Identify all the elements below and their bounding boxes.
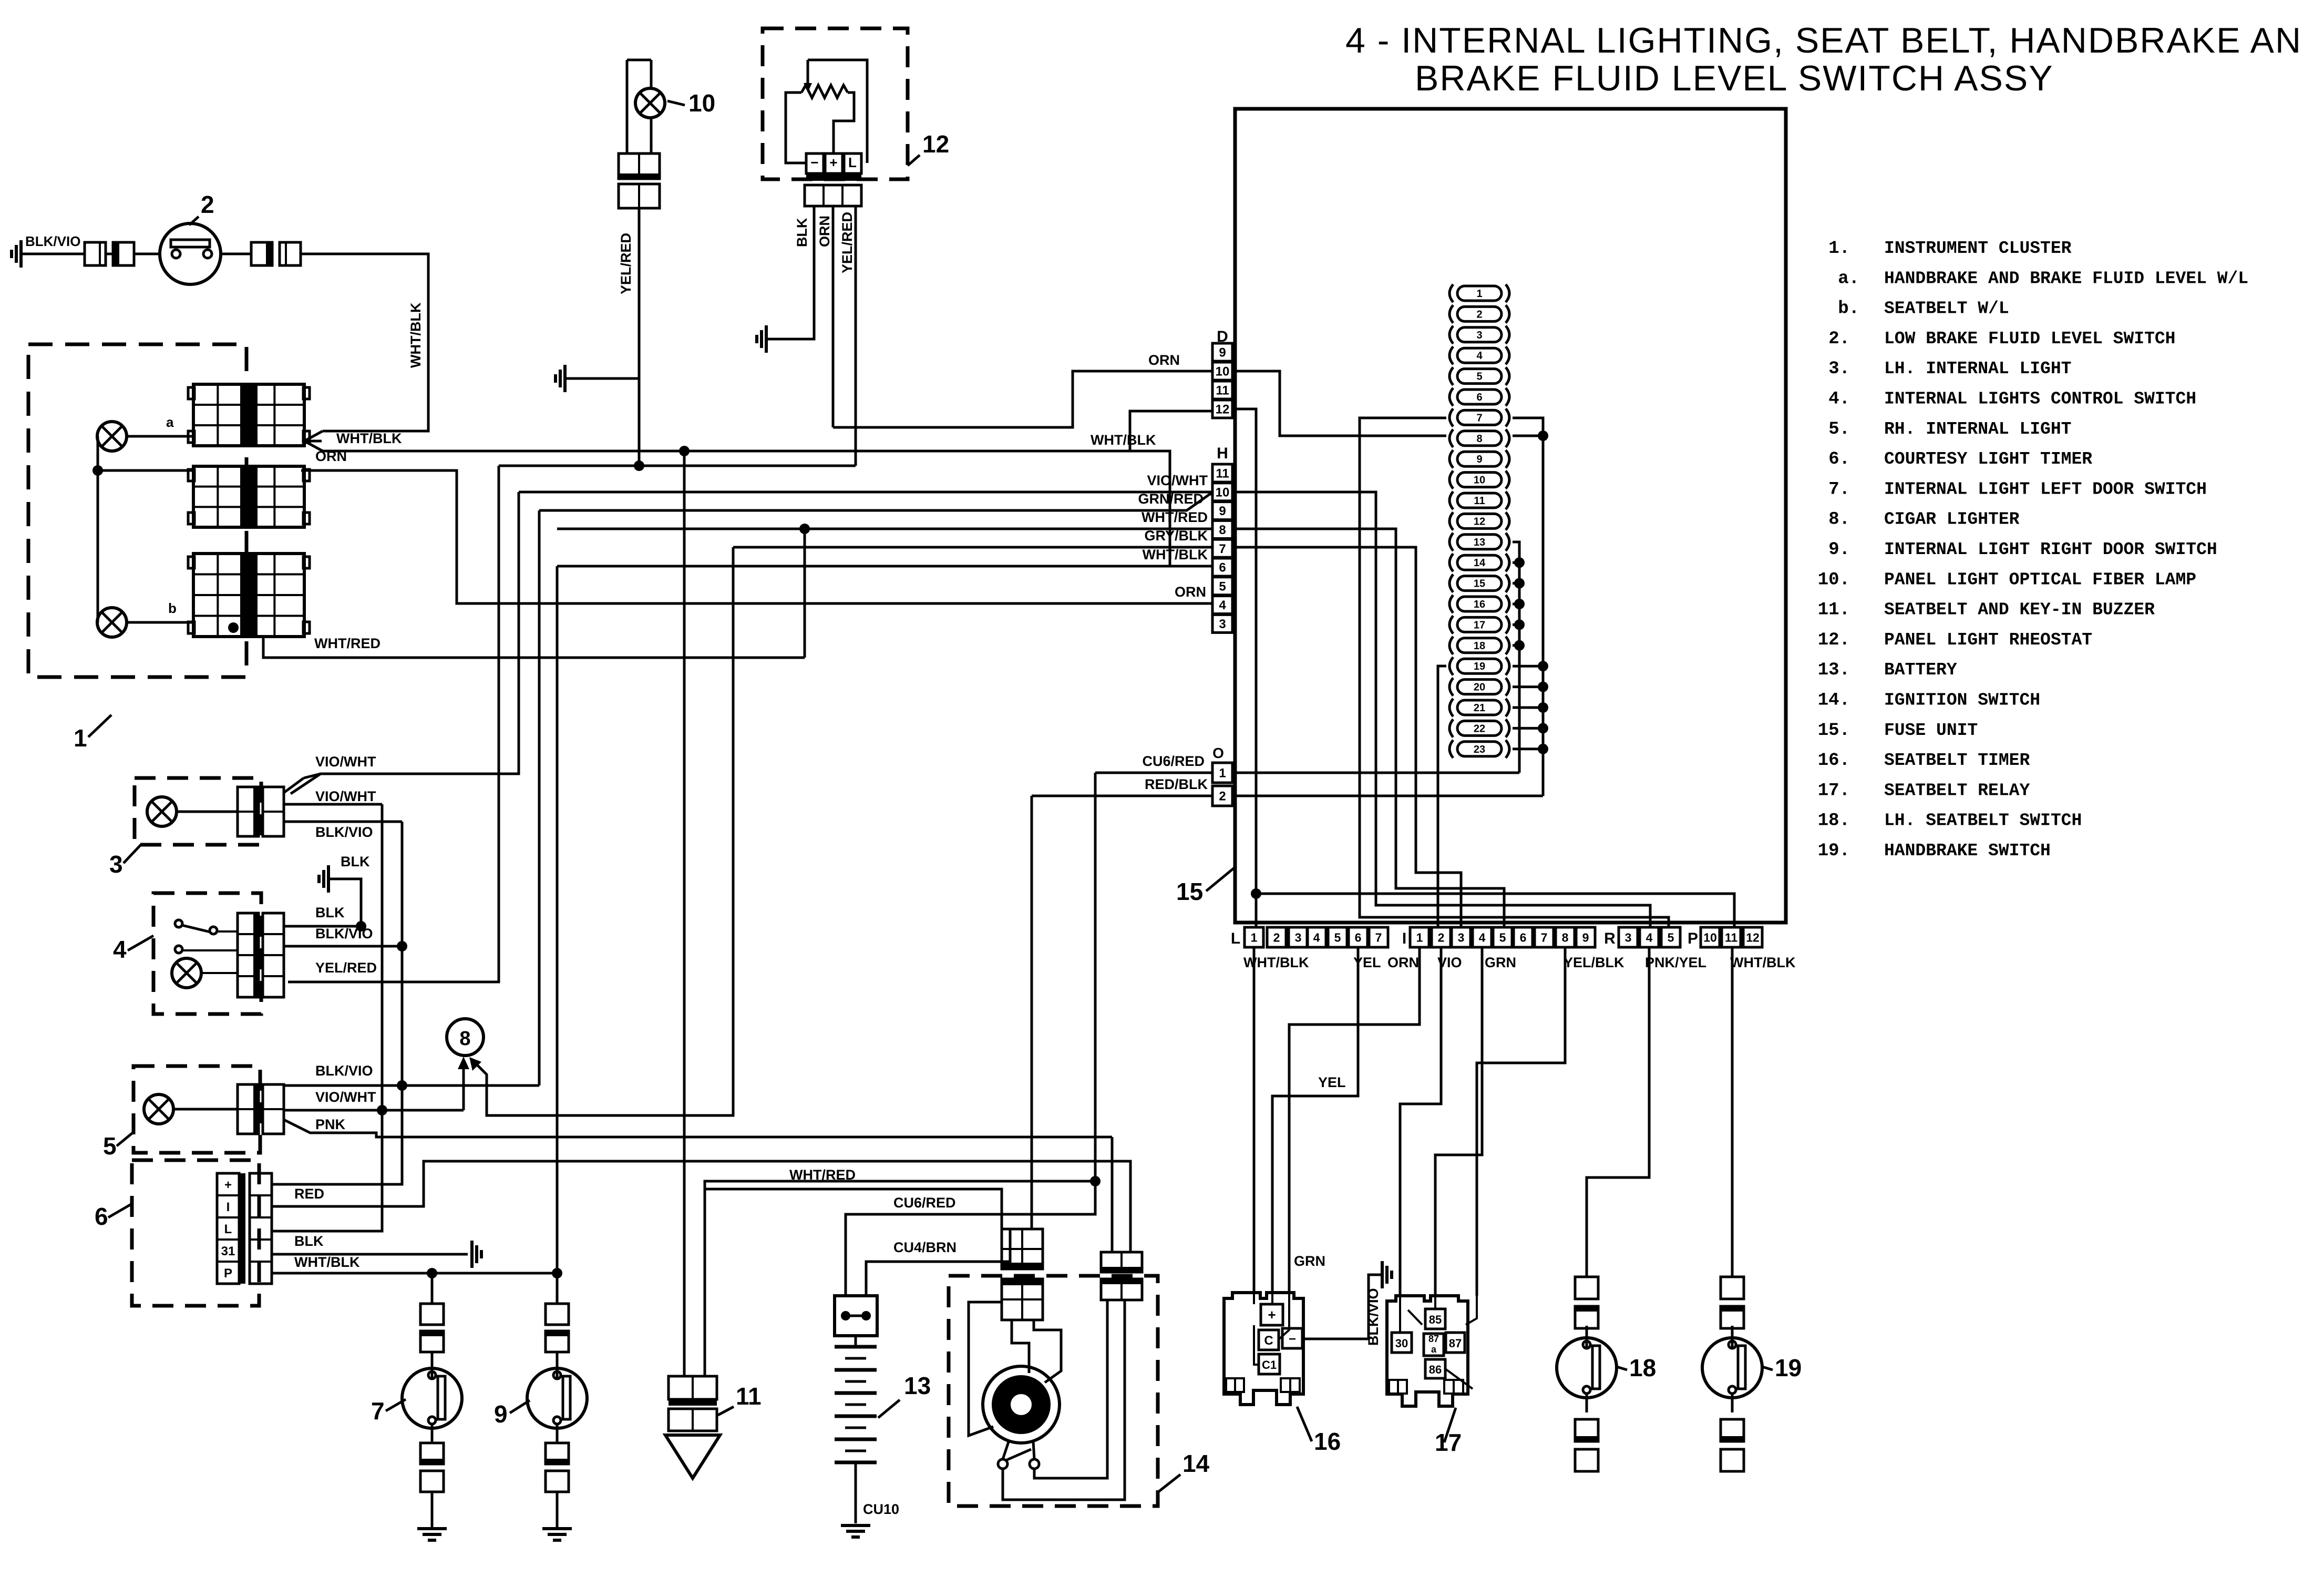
svg-text:SEATBELT TIMER: SEATBELT TIMER	[1884, 751, 2030, 770]
svg-text:18: 18	[1474, 640, 1485, 652]
fuse 23	[1449, 740, 1453, 758]
svg-text:I: I	[227, 1200, 230, 1214]
fuse 14	[1449, 554, 1453, 571]
wire riser to D12 left	[1130, 411, 1212, 451]
light5 connector	[238, 1084, 259, 1134]
svg-text:ORN: ORN	[817, 216, 832, 247]
svg-text:14: 14	[1474, 557, 1486, 569]
wire CU4/BRN from battery to ignition	[866, 1229, 1010, 1296]
terminal strip pin 4 at x3138	[1640, 927, 1659, 947]
svg-text:9: 9	[1219, 346, 1226, 360]
svg-text:10: 10	[1703, 930, 1717, 944]
svg-text:8: 8	[459, 1028, 470, 1050]
wire GRN/RED into H10 diagonal	[539, 494, 1212, 510]
ignition right connector upper	[1101, 1252, 1142, 1272]
svg-text:87: 87	[1428, 1334, 1439, 1344]
svg-text:8: 8	[1219, 523, 1226, 537]
wire fuse8 stub right	[1513, 435, 1543, 437]
ground G10	[1381, 1261, 1384, 1288]
svg-text:BATTERY: BATTERY	[1884, 660, 1957, 680]
wire BLK/VIO from light5	[284, 1084, 539, 1087]
svg-text:10: 10	[688, 89, 715, 117]
svg-text:ORN: ORN	[1387, 955, 1419, 970]
svg-text:1: 1	[1476, 288, 1482, 300]
svg-text:10: 10	[1474, 475, 1485, 486]
svg-text:12: 12	[1746, 930, 1760, 944]
fuse 15	[1449, 575, 1453, 592]
lamp in switch 4	[172, 958, 201, 988]
svg-text:15: 15	[1176, 878, 1203, 905]
wire D12 to P11 and L1	[1233, 409, 1256, 894]
terminal strip pin 4 at x2820	[1473, 927, 1492, 947]
wire BLK/VIO from light3	[284, 821, 402, 823]
seatbelt switch 18 connectors	[1575, 1277, 1598, 1299]
svg-text:−: −	[1289, 1332, 1296, 1346]
svg-text:I: I	[1402, 930, 1406, 947]
switch4 contacts	[175, 920, 182, 927]
svg-text:P: P	[224, 1266, 232, 1281]
wire YEL L6 to seatbelt timer	[1272, 947, 1358, 1293]
svg-text:5: 5	[1476, 371, 1482, 383]
svg-text:+: +	[224, 1178, 232, 1192]
relay17 terminal 86	[1425, 1359, 1445, 1378]
svg-text:CU6/RED: CU6/RED	[893, 1195, 956, 1211]
fuse 22	[1449, 719, 1453, 737]
svg-text:18: 18	[1629, 1354, 1656, 1381]
svg-text:WHT/BLK: WHT/BLK	[1143, 547, 1208, 562]
svg-text:3: 3	[1476, 330, 1482, 341]
svg-text:5: 5	[1499, 930, 1506, 944]
ground G7	[431, 1492, 434, 1529]
wire PNK from light5	[284, 1120, 1112, 1137]
seatbelt timer 16	[1224, 1293, 1303, 1405]
svg-text:BLK: BLK	[315, 905, 345, 920]
svg-text:11: 11	[1725, 930, 1738, 944]
svg-text:19: 19	[1775, 1354, 1802, 1381]
svg-text:VIO/WHT: VIO/WHT	[315, 788, 376, 804]
svg-text:14.: 14.	[1818, 691, 1850, 711]
wire fuse 18 stub	[1513, 644, 1519, 647]
svg-text:+: +	[829, 155, 837, 170]
svg-text:86: 86	[1429, 1363, 1442, 1376]
lamp 3	[147, 797, 177, 826]
svg-text:CU4/BRN: CU4/BRN	[893, 1240, 957, 1255]
svg-text:ORN: ORN	[315, 448, 347, 464]
svg-text:INTERNAL LIGHT RIGHT DOOR SWIT: INTERNAL LIGHT RIGHT DOOR SWITCH	[1884, 540, 2217, 559]
terminal strip pin 5 at x2859	[1493, 927, 1512, 947]
wire WHT/BLK long to H6	[322, 451, 1170, 566]
svg-text:5: 5	[103, 1132, 117, 1160]
fuse 19	[1449, 657, 1453, 675]
svg-text:17.: 17.	[1818, 781, 1850, 801]
ignition bottom loop wires	[1003, 1300, 1125, 1500]
svg-text:22: 22	[1474, 723, 1485, 734]
svg-text:2: 2	[1219, 790, 1226, 804]
svg-text:5.: 5.	[1828, 419, 1850, 439]
svg-text:BRAKE FLUID LEVEL SWITCH ASSY: BRAKE FLUID LEVEL SWITCH ASSY	[1415, 58, 2054, 98]
ground G2	[765, 325, 768, 353]
ground G11	[563, 365, 567, 392]
relay17 inner leads	[1399, 1296, 1401, 1333]
svg-text:RH. INTERNAL LIGHT: RH. INTERNAL LIGHT	[1884, 419, 2071, 439]
fuse 5	[1449, 367, 1453, 385]
svg-text:COURTESY LIGHT TIMER: COURTESY LIGHT TIMER	[1884, 449, 2092, 469]
wire fuse13 to O1 bus	[1513, 542, 1519, 773]
ground G8	[556, 1492, 559, 1529]
terminal strip pin 5 at x2545	[1328, 927, 1347, 947]
terminal strip pin 6 at x2584	[1349, 927, 1367, 947]
terminal strip pin 4 at x2505	[1307, 927, 1326, 947]
arrow WHT/BLK out of cluster	[304, 431, 323, 451]
svg-text:13.: 13.	[1818, 660, 1850, 680]
svg-text:2: 2	[201, 191, 214, 218]
switch4 connector	[238, 913, 259, 997]
svg-text:7: 7	[1375, 930, 1382, 944]
svg-text:HANDBRAKE AND BRAKE FLUID LEVE: HANDBRAKE AND BRAKE FLUID LEVEL W/L	[1884, 269, 2248, 288]
wire fuse 23 stub right	[1513, 747, 1543, 750]
wire fuse 20 stub right	[1513, 685, 1543, 688]
wire ORN into D10	[833, 371, 1212, 427]
svg-text:4: 4	[1646, 930, 1653, 944]
cluster connector row2 left	[193, 466, 248, 527]
svg-text:C1: C1	[1262, 1358, 1277, 1371]
wire I4 to relay	[1435, 947, 1482, 1296]
terminal strip pin 3 at x3098	[1619, 927, 1638, 947]
fuse 18	[1449, 637, 1453, 654]
ground G9	[841, 1524, 870, 1527]
svg-text:11: 11	[1474, 495, 1485, 507]
timer16 inner leads	[1253, 1293, 1255, 1304]
wire CU6/RED to battery	[846, 773, 1095, 1296]
wire BLK from switch4	[284, 925, 361, 928]
svg-text:YEL/BLK: YEL/BLK	[1564, 955, 1624, 970]
svg-text:P: P	[1688, 930, 1698, 947]
wire timer16 minus to ground BLK/VIO	[1302, 1275, 1382, 1339]
terminal strip pin 3 at x2470	[1289, 927, 1308, 947]
seatbelt switch 18 bottom connectors	[1586, 1394, 1587, 1419]
cluster connector row1 right	[250, 384, 304, 446]
svg-text:18.: 18.	[1818, 811, 1850, 831]
wire I8 to relay	[1477, 947, 1565, 1296]
fuse 17	[1449, 616, 1453, 633]
door switch 7 connectors top	[420, 1304, 444, 1325]
wire to buzzer left	[683, 451, 686, 1376]
door switch 7 connectors bottom	[420, 1443, 444, 1464]
wire GRY/BLK down to cigar lighter	[476, 547, 733, 1115]
svg-text:5: 5	[1668, 930, 1674, 944]
svg-text:SEATBELT RELAY: SEATBELT RELAY	[1884, 781, 2030, 800]
fuse 21	[1449, 699, 1453, 716]
svg-text:RED: RED	[294, 1186, 324, 1202]
wire H7 to I3	[1233, 547, 1461, 927]
svg-text:20: 20	[1474, 682, 1485, 693]
connector O pin 1	[1212, 763, 1232, 783]
wire YEL/RED from rheostat	[855, 206, 857, 466]
svg-text:PANEL LIGHT OPTICAL FIBER LAMP: PANEL LIGHT OPTICAL FIBER LAMP	[1884, 570, 2196, 589]
terminal strip pin 3 at x2780	[1452, 927, 1471, 947]
svg-text:9: 9	[1219, 504, 1226, 518]
internal lights control switch 4	[153, 893, 261, 1014]
svg-text:4: 4	[113, 936, 127, 963]
rheostat connector below	[805, 185, 861, 206]
svg-text:BLK/VIO: BLK/VIO	[315, 824, 373, 840]
terminal strip pin 9 at x3017	[1576, 927, 1595, 947]
svg-text:85: 85	[1429, 1313, 1442, 1326]
relay17 terminal 30	[1392, 1333, 1412, 1353]
cluster connector row1 left	[193, 384, 248, 446]
svg-text:19: 19	[1474, 661, 1485, 672]
svg-text:a.: a.	[1838, 269, 1859, 289]
relay17 terminal 87a	[1424, 1334, 1444, 1356]
ground G1	[19, 240, 23, 268]
svg-text:87: 87	[1449, 1337, 1462, 1350]
svg-text:PNK: PNK	[315, 1117, 346, 1132]
svg-text:11: 11	[1216, 384, 1229, 398]
timer16 bottom cells	[1226, 1378, 1244, 1392]
svg-text:4: 4	[1479, 930, 1486, 944]
svg-text:PANEL LIGHT RHEOSTAT: PANEL LIGHT RHEOSTAT	[1884, 630, 2092, 650]
svg-text:YEL/RED: YEL/RED	[839, 212, 855, 273]
ground G5	[328, 879, 361, 926]
svg-text:GRN: GRN	[1294, 1253, 1325, 1269]
wire H8 to I5	[1233, 529, 1504, 927]
connector D pin 10	[1212, 362, 1232, 380]
svg-text:LH. INTERNAL LIGHT: LH. INTERNAL LIGHT	[1884, 359, 2071, 378]
svg-text:FUSE UNIT: FUSE UNIT	[1884, 721, 1978, 740]
svg-text:3: 3	[1219, 617, 1226, 631]
svg-text:b: b	[168, 600, 177, 616]
wire fuse 15 stub	[1513, 582, 1519, 585]
svg-text:CU6/RED: CU6/RED	[1142, 753, 1205, 769]
svg-text:IGNITION SWITCH: IGNITION SWITCH	[1884, 691, 2040, 710]
seatbelt switch 18 leads	[1586, 1470, 1588, 1472]
light3 connector	[238, 787, 259, 836]
wire I1 GRN to seatbelt timer	[1289, 947, 1420, 1293]
svg-text:1: 1	[74, 724, 87, 752]
connector H pin 4	[1212, 596, 1232, 614]
terminal strip pin 2 at x2742	[1432, 927, 1451, 947]
wire BLK from timer to ground	[272, 1253, 468, 1256]
svg-text:b.: b.	[1838, 299, 1859, 319]
svg-text:2.: 2.	[1828, 329, 1850, 349]
svg-text:BLK/VIO: BLK/VIO	[315, 1063, 373, 1079]
timer terminal column	[217, 1173, 239, 1284]
cigar lighter 8	[447, 1019, 484, 1056]
connector H pin 6	[1212, 558, 1232, 576]
wire D10 to fuse8	[1233, 371, 1446, 436]
svg-text:7: 7	[1476, 412, 1482, 424]
terminal strip pin 7 at x2623	[1369, 927, 1388, 947]
svg-text:INTERNAL LIGHT LEFT DOOR SWITC: INTERNAL LIGHT LEFT DOOR SWITCH	[1884, 479, 2207, 499]
svg-text:16: 16	[1314, 1428, 1341, 1455]
connector H pin 9	[1212, 502, 1232, 520]
wire fuse7 to O2 bus	[1513, 418, 1543, 796]
svg-text:14: 14	[1182, 1450, 1210, 1477]
seatbelt and key-in buzzer 11	[665, 1435, 720, 1478]
rheostat terminals - + L	[806, 153, 824, 173]
wire fuse19 to I2	[1438, 666, 1446, 927]
svg-text:7: 7	[371, 1397, 385, 1425]
svg-text:CIGAR LIGHTER: CIGAR LIGHTER	[1884, 510, 2020, 529]
svg-text:4: 4	[1313, 930, 1320, 944]
svg-text:C: C	[1264, 1334, 1273, 1348]
svg-text:1: 1	[1416, 930, 1423, 944]
wire switch 2 to instrument cluster WHT/BLK	[301, 254, 428, 431]
svg-text:YEL/RED: YEL/RED	[315, 960, 377, 976]
svg-text:HANDBRAKE SWITCH: HANDBRAKE SWITCH	[1884, 841, 2051, 861]
timer16 terminal C1	[1259, 1354, 1280, 1374]
svg-text:H: H	[1217, 445, 1228, 462]
terminal strip pin 11 at x3294	[1722, 927, 1741, 947]
svg-text:WHT/BLK: WHT/BLK	[336, 431, 402, 446]
svg-text:9.: 9.	[1828, 540, 1850, 560]
wire YEL/RED from lamp 10	[638, 208, 641, 466]
connector H pin 8	[1212, 520, 1232, 538]
svg-text:9: 9	[1476, 454, 1482, 465]
wire P11 WHT/BLK to handbrake switch 19	[1731, 947, 1734, 1277]
svg-text:4: 4	[1219, 598, 1226, 612]
terminal strip pin 5 at x3179	[1661, 927, 1680, 947]
svg-text:L: L	[224, 1222, 232, 1236]
lamp 5	[144, 1094, 173, 1124]
courtesy light timer 6	[132, 1160, 259, 1306]
wire VIO/WHT mid from light3	[284, 803, 382, 806]
wire WHT/BLK H6 down to door switches	[556, 566, 559, 1273]
svg-text:8: 8	[1476, 433, 1482, 445]
wire R4 PNK/YEL to seatbelt switch 18	[1587, 947, 1649, 1277]
svg-text:a: a	[166, 414, 174, 430]
svg-text:4: 4	[1476, 350, 1483, 362]
connector O pin 2	[1212, 786, 1232, 806]
svg-text:21: 21	[1474, 702, 1485, 714]
wire GRN/RED down to lamp5 BLK/VIO	[538, 510, 541, 1086]
ignition connector lower	[1002, 1279, 1043, 1320]
svg-text:BLK: BLK	[341, 854, 370, 869]
wire VIO/WHT vertical to light5 and timer L	[272, 804, 382, 1231]
svg-text:6: 6	[1520, 930, 1527, 944]
fuse unit box 15	[1235, 109, 1786, 923]
timer16 terminal minus	[1282, 1328, 1302, 1348]
fuse 6	[1449, 388, 1453, 406]
svg-text:5: 5	[1219, 579, 1226, 593]
svg-text:INTERNAL LIGHTS CONTROL SWITCH: INTERNAL LIGHTS CONTROL SWITCH	[1884, 390, 2196, 409]
svg-text:15: 15	[1474, 578, 1485, 590]
terminal strip pin 12 at x3335	[1743, 927, 1762, 947]
connector H pin 5	[1212, 577, 1232, 595]
seatbelt relay 17	[1387, 1296, 1468, 1406]
svg-text:LOW BRAKE FLUID LEVEL SWITCH: LOW BRAKE FLUID LEVEL SWITCH	[1884, 329, 2176, 349]
svg-text:SEATBELT W/L: SEATBELT W/L	[1884, 299, 2009, 319]
fuse 16	[1449, 595, 1453, 613]
wire CU6/RED into O1	[1095, 772, 1212, 774]
svg-text:R: R	[1604, 930, 1616, 947]
svg-text:SEATBELT AND KEY-IN BUZZER: SEATBELT AND KEY-IN BUZZER	[1884, 600, 2155, 620]
terminal strip pin 10 at x3254	[1701, 927, 1720, 947]
wire YEL/RED run	[499, 465, 856, 467]
wire BLK/VIO to switch 2	[21, 253, 85, 255]
svg-text:L: L	[848, 155, 857, 170]
svg-text:VIO/WHT: VIO/WHT	[315, 1089, 376, 1105]
connector H pin 3	[1212, 615, 1232, 632]
connector pair right of switch 2	[221, 253, 251, 255]
handbrake switch 19 connectors	[1721, 1277, 1744, 1299]
svg-text:PNK/YEL: PNK/YEL	[1645, 955, 1706, 970]
connector H pin 11	[1212, 464, 1232, 482]
wire fuse 14 stub	[1513, 561, 1519, 564]
wire L1 to seatbelt timer	[1253, 947, 1256, 1293]
wire RED from timer	[272, 1161, 1130, 1252]
cluster connector row2 right	[250, 466, 304, 527]
svg-text:WHT/BLK: WHT/BLK	[294, 1254, 360, 1270]
svg-text:6: 6	[1219, 561, 1226, 575]
fuse 4	[1449, 346, 1453, 364]
rheostat resistor	[801, 85, 848, 98]
ground G6	[470, 1241, 474, 1268]
svg-text:GRY/BLK: GRY/BLK	[1145, 528, 1208, 544]
svg-text:12: 12	[1216, 403, 1230, 417]
svg-text:3: 3	[109, 851, 123, 878]
svg-text:8.: 8.	[1828, 510, 1850, 530]
wire RED/BLK into O2	[1032, 795, 1212, 797]
svg-text:11: 11	[736, 1383, 762, 1410]
wire fuse 22 stub right	[1513, 727, 1543, 730]
connector D pin 11	[1212, 381, 1232, 399]
fuse 9	[1449, 450, 1453, 468]
wire fuse7 to R5	[1360, 418, 1669, 927]
connector D pin 12	[1212, 400, 1232, 418]
svg-text:BLK/VIO: BLK/VIO	[1365, 1288, 1381, 1346]
wire to door switch 7	[431, 1273, 434, 1304]
wire PNK down to ignition	[1111, 1137, 1114, 1252]
svg-text:12: 12	[922, 130, 949, 158]
svg-text:16.: 16.	[1818, 751, 1850, 771]
svg-text:4 - INTERNAL LIGHTING, SEAT: 4 - INTERNAL LIGHTING, SEAT BELT, HANDBR…	[1345, 21, 2302, 60]
wire to door switch 9	[556, 1273, 559, 1304]
fuse 7	[1449, 408, 1453, 426]
svg-text:WHT/BLK: WHT/BLK	[408, 302, 424, 368]
ignition bottom contacts	[1003, 1440, 1009, 1459]
svg-text:10: 10	[1216, 485, 1230, 499]
svg-text:YEL: YEL	[1318, 1074, 1346, 1090]
svg-text:1.: 1.	[1828, 239, 1850, 259]
svg-text:BLK: BLK	[294, 1233, 324, 1249]
svg-text:WHT/BLK: WHT/BLK	[1730, 955, 1796, 970]
svg-text:a: a	[1431, 1344, 1437, 1355]
wire O2 RED/BLK right to fuse bus	[1233, 795, 1543, 797]
fuse 10	[1449, 471, 1453, 489]
svg-text:11: 11	[1216, 467, 1229, 481]
svg-text:3: 3	[1295, 930, 1302, 944]
svg-text:6: 6	[1476, 392, 1482, 403]
svg-text:L: L	[1231, 930, 1240, 947]
rheostat wiper arrow	[807, 60, 809, 84]
svg-text:10.: 10.	[1818, 570, 1850, 590]
svg-text:9: 9	[494, 1400, 508, 1428]
handbrake switch 19	[1731, 1328, 1734, 1339]
wire GRY/BLK into H7	[733, 546, 1212, 549]
svg-text:6: 6	[1355, 930, 1362, 944]
terminal strip pin 7 at x2938	[1535, 927, 1554, 947]
wire diag from light3 top	[284, 778, 304, 793]
svg-text:3: 3	[1625, 930, 1632, 944]
svg-text:O: O	[1212, 745, 1224, 761]
svg-text:RED/BLK: RED/BLK	[1145, 776, 1208, 792]
svg-text:1: 1	[1219, 766, 1226, 781]
svg-text:8: 8	[1562, 930, 1569, 944]
relay17 terminal 85	[1425, 1309, 1445, 1329]
internal light left door switch 7	[431, 1352, 434, 1368]
ignition switch key circle	[983, 1366, 1060, 1443]
